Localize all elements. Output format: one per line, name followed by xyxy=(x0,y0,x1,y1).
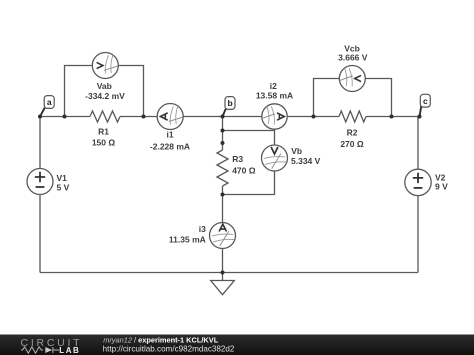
svg-text:3.666 V: 3.666 V xyxy=(338,53,368,63)
svg-text:13.58 mA: 13.58 mA xyxy=(256,91,293,101)
svg-text:Vab: Vab xyxy=(97,81,112,91)
svg-text:9 V: 9 V xyxy=(435,182,448,192)
svg-text:270 Ω: 270 Ω xyxy=(340,139,364,149)
svg-text:R3: R3 xyxy=(232,154,243,164)
svg-text:5.334 V: 5.334 V xyxy=(291,156,321,166)
svg-text:c: c xyxy=(423,96,428,106)
svg-text:i2: i2 xyxy=(270,81,277,91)
svg-text:470 Ω: 470 Ω xyxy=(232,165,256,175)
svg-text:LAB: LAB xyxy=(59,346,80,355)
svg-text:R2: R2 xyxy=(347,128,358,138)
svg-text:5 V: 5 V xyxy=(57,182,70,192)
svg-text:i1: i1 xyxy=(166,130,173,140)
svg-text:11.35 mA: 11.35 mA xyxy=(169,235,206,245)
svg-text:150 Ω: 150 Ω xyxy=(92,138,116,148)
svg-text:Vb: Vb xyxy=(291,146,302,156)
svg-text:i3: i3 xyxy=(199,224,206,234)
svg-text:-334.2 mV: -334.2 mV xyxy=(85,91,125,101)
svg-text:R1: R1 xyxy=(98,127,109,137)
svg-text:http://circuitlab.com/c982mdac: http://circuitlab.com/c982mdac382d2 xyxy=(103,345,235,354)
svg-text:b: b xyxy=(227,98,232,108)
svg-text:a: a xyxy=(47,97,52,107)
svg-text:mryan12 / experiment-1 KCL/KVL: mryan12 / experiment-1 KCL/KVL xyxy=(103,335,219,344)
svg-text:-2.228 mA: -2.228 mA xyxy=(150,142,190,152)
